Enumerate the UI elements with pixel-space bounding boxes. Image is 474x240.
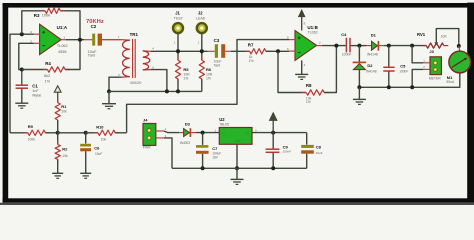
- node G junction dot (J2 tap): [200, 49, 204, 53]
- ground below R2: [52, 159, 63, 178]
- node T junction dot (C7 tap): [201, 131, 205, 135]
- svg-text:4558: 4558: [58, 50, 66, 54]
- wire J4 pin2 to bottom ground rail: [164, 138, 172, 168]
- wire R8 feedback loop: [278, 51, 306, 92]
- connector J3 (METER): [423, 49, 441, 80]
- ground below TR1: [102, 91, 116, 108]
- wire D1 to RV1: [378, 45, 426, 47]
- wire bias from divider to U1:B + input: [127, 40, 289, 133]
- svg-text:78L05: 78L05: [219, 123, 229, 127]
- node F junction dot (J1 tap): [176, 49, 180, 53]
- svg-text:J2: J2: [198, 10, 203, 15]
- svg-text:C2: C2: [91, 24, 97, 29]
- node D junction dot (primary ground): [107, 89, 111, 93]
- capacitor C4: [341, 32, 351, 56]
- svg-text:D2: D2: [367, 63, 373, 68]
- svg-text:TR1: TR1: [130, 32, 139, 37]
- svg-text:IN4003: IN4003: [180, 141, 191, 145]
- node I junction dot (R7/R8/pin6): [276, 49, 280, 53]
- svg-text:R9: R9: [28, 124, 34, 129]
- svg-text:8k2: 8k2: [44, 74, 50, 78]
- resistor R3: [34, 8, 65, 18]
- resistor R10: [94, 124, 120, 141]
- capacitor C3: [214, 38, 226, 67]
- wire R7 to U1:B inverting input: [266, 50, 289, 52]
- svg-text:100k: 100k: [28, 138, 36, 142]
- ground below C6: [80, 160, 91, 178]
- border frame right: [467, 3, 474, 203]
- svg-text:16V: 16V: [212, 156, 219, 160]
- wire U2 output: [252, 132, 307, 134]
- wire R3 feedback loop right: [60, 11, 80, 40]
- svg-text:C1: C1: [32, 83, 38, 88]
- node M junction dot (J3 branch): [410, 44, 414, 48]
- node J junction dot (output/R8): [334, 44, 338, 48]
- border frame bottom shadow: [0, 203, 474, 205]
- svg-text:R3: R3: [34, 13, 40, 18]
- node P junction dot (C5/gnd rail): [387, 85, 391, 89]
- svg-text:J1: J1: [175, 10, 180, 15]
- svg-text:VI: VI: [222, 131, 225, 135]
- resistor R7: [245, 42, 270, 63]
- wire R3 feedback loop left: [22, 11, 45, 35]
- transformer TR1: [118, 32, 154, 85]
- node O junction dot (D2/gnd rail): [357, 85, 361, 89]
- svg-text:100nF: 100nF: [283, 150, 292, 154]
- diode D1: [367, 33, 379, 57]
- svg-text:LEAD: LEAD: [196, 16, 206, 20]
- power arrow above R1: [54, 86, 61, 103]
- svg-text:C8: C8: [316, 144, 322, 149]
- svg-text:10k: 10k: [101, 138, 107, 142]
- ground below C1: [15, 90, 28, 108]
- wire meter bottom to ground rail: [412, 73, 460, 87]
- svg-text:Mylar: Mylar: [32, 93, 42, 97]
- svg-text:IN4148: IN4148: [366, 70, 377, 74]
- connector J1 (TEST): [173, 10, 184, 33]
- capacitor C5: [383, 46, 408, 88]
- capacitor C9: [266, 133, 292, 169]
- wire J4 pin1 to D3: [164, 131, 184, 133]
- wire TR1 secondary top to test nodes: [151, 50, 215, 52]
- wire right ground rail: [359, 86, 412, 88]
- capacitor C6: [80, 133, 102, 160]
- wire bottom rail left: [10, 132, 28, 134]
- svg-text:C6: C6: [94, 145, 100, 150]
- node A junction dot (+ input / R3 feedback): [20, 32, 24, 36]
- wire R9 to divider node: [45, 132, 57, 134]
- node V junction dot (+5V arrow / C9): [271, 131, 275, 135]
- label 70KHz: [86, 19, 104, 25]
- svg-text:10uF: 10uF: [316, 151, 323, 155]
- svg-text:1%: 1%: [249, 59, 254, 63]
- svg-text:1%: 1%: [206, 76, 211, 80]
- wire R4 right riser to output: [65, 41, 80, 70]
- svg-text:C4: C4: [341, 32, 347, 37]
- svg-text:1nF: 1nF: [32, 89, 39, 93]
- svg-text:C7: C7: [212, 146, 218, 151]
- svg-text:J3: J3: [429, 49, 434, 54]
- potentiometer RV1: [417, 29, 459, 49]
- border frame left: [3, 3, 9, 203]
- svg-text:10K: 10K: [441, 34, 448, 38]
- svg-text:PWR: PWR: [143, 146, 151, 150]
- wire J1 stem: [174, 33, 178, 60]
- wire C2 to TR1 primary: [102, 39, 122, 41]
- svg-text:Tant: Tant: [88, 54, 96, 58]
- svg-text:1%: 1%: [45, 79, 51, 83]
- svg-text:RV1: RV1: [417, 32, 426, 37]
- wire U1:A output: [61, 39, 92, 41]
- node C junction dot (output/C2/feedback): [78, 38, 82, 42]
- svg-text:D1: D1: [371, 33, 377, 38]
- svg-text:R2: R2: [62, 146, 68, 151]
- svg-text:R5: R5: [183, 67, 189, 72]
- node U junction dot (U2 gnd/rail): [235, 166, 239, 170]
- op-amp U1:A: [30, 24, 68, 54]
- capacitor C7: [196, 133, 221, 169]
- svg-text:50uA: 50uA: [446, 80, 455, 84]
- resistor R8: [302, 83, 329, 104]
- svg-text:U2: U2: [219, 117, 225, 122]
- diode D3: [180, 122, 191, 145]
- svg-text:TL062: TL062: [307, 30, 317, 34]
- wire J2 stem: [198, 33, 202, 60]
- wire RV1 left branch down to J3: [412, 46, 423, 63]
- border frame bottom: [3, 198, 474, 202]
- svg-text:R1: R1: [61, 104, 67, 109]
- node H junction dot (R5/rail): [176, 89, 180, 93]
- svg-text:1%: 1%: [306, 100, 311, 104]
- wire divider to C6: [58, 132, 86, 134]
- svg-text:R8: R8: [306, 83, 312, 88]
- capacitor C2: [88, 24, 102, 58]
- svg-text:D3: D3: [185, 122, 191, 127]
- svg-text:GND: GND: [235, 139, 241, 143]
- node K junction dot (D2 tap): [357, 44, 361, 48]
- node N junction dot (RV1 wiper/meter): [457, 44, 461, 48]
- svg-text:J4: J4: [143, 118, 148, 123]
- svg-text:400/20: 400/20: [130, 81, 142, 85]
- wire R8 to output: [324, 46, 336, 93]
- svg-text:R4: R4: [45, 61, 51, 66]
- node E junction dot (secondary/rail): [165, 89, 169, 93]
- node W junction dot (C7/rail): [201, 166, 205, 170]
- resistor R1: [55, 98, 67, 133]
- svg-text:10k: 10k: [61, 110, 67, 114]
- svg-text:C5: C5: [400, 63, 406, 68]
- svg-text:100k: 100k: [42, 14, 50, 18]
- capacitor C8: [301, 133, 323, 169]
- wire R10 right lead: [115, 132, 126, 134]
- node Q junction dot (J3 pin2/gnd rail): [410, 85, 414, 89]
- svg-text:TL062: TL062: [57, 44, 68, 48]
- wire R9 bias riser to U1:A + input: [10, 34, 34, 133]
- svg-text:IN4148: IN4148: [367, 53, 378, 57]
- wire TR1 primary bottom to ground rail: [109, 77, 122, 91]
- resistor R2: [55, 133, 68, 164]
- wire bottom ground rail: [172, 167, 307, 169]
- svg-text:10k: 10k: [62, 154, 68, 158]
- svg-text:R6: R6: [206, 67, 212, 72]
- svg-text:TEST: TEST: [174, 16, 184, 20]
- svg-text:U1:A: U1:A: [57, 25, 68, 30]
- wire C3 to R7: [225, 50, 250, 52]
- meter M1: [446, 46, 470, 84]
- svg-text:1%: 1%: [183, 76, 188, 80]
- connector J4 (PWR): [143, 118, 167, 150]
- wire C4 to D1: [350, 45, 372, 47]
- svg-text:R7: R7: [248, 42, 254, 47]
- node S junction dot (C6 tap): [84, 131, 88, 135]
- wire TR1 secondary bottom: [151, 70, 167, 92]
- wire R4 left lead: [22, 69, 48, 71]
- wire D3 to U2: [190, 132, 219, 134]
- svg-text:Tant: Tant: [214, 64, 221, 68]
- op-amp U1:B: [287, 21, 321, 67]
- resistor R9: [23, 124, 50, 142]
- svg-text:100nF: 100nF: [342, 52, 352, 56]
- svg-text:R10: R10: [96, 124, 104, 129]
- wire J3 pin2 to ground rail: [412, 69, 423, 87]
- svg-text:METER: METER: [429, 76, 441, 80]
- resistor R4: [43, 61, 70, 83]
- svg-text:U1:B: U1:B: [307, 25, 318, 30]
- wire C6 to R10: [86, 132, 98, 134]
- svg-text:10uF: 10uF: [95, 152, 102, 156]
- wire U1:A - input loop: [19, 43, 34, 69]
- wire ground rail (oscillator): [109, 90, 202, 92]
- resistor R5: [175, 56, 190, 92]
- ground below U2: [231, 168, 244, 184]
- node X junction dot (C9/rail): [271, 166, 275, 170]
- border frame top: [3, 3, 472, 8]
- wire U2 ground pin: [236, 144, 238, 168]
- voltage regulator U2: [215, 117, 257, 144]
- node L junction dot (D1 out / C5): [387, 44, 391, 48]
- svg-text:VO: VO: [245, 131, 249, 135]
- ground below U1:B: [295, 60, 308, 79]
- diode D2: [353, 46, 377, 88]
- node B junction dot (R4 / C1): [20, 68, 24, 72]
- power arrow above U1:B: [299, 10, 305, 30]
- svg-text:C3: C3: [214, 38, 220, 43]
- ground below D2 rail: [353, 87, 366, 104]
- node R junction dot (R1/R2 divider): [56, 131, 60, 135]
- wire U1:B output: [317, 45, 347, 47]
- connector J2 (LEAD): [196, 10, 207, 33]
- resistor R6: [199, 56, 213, 92]
- svg-text:100nF: 100nF: [399, 70, 408, 74]
- capacitor C1: [16, 71, 43, 97]
- power arrow +5V output: [270, 113, 277, 133]
